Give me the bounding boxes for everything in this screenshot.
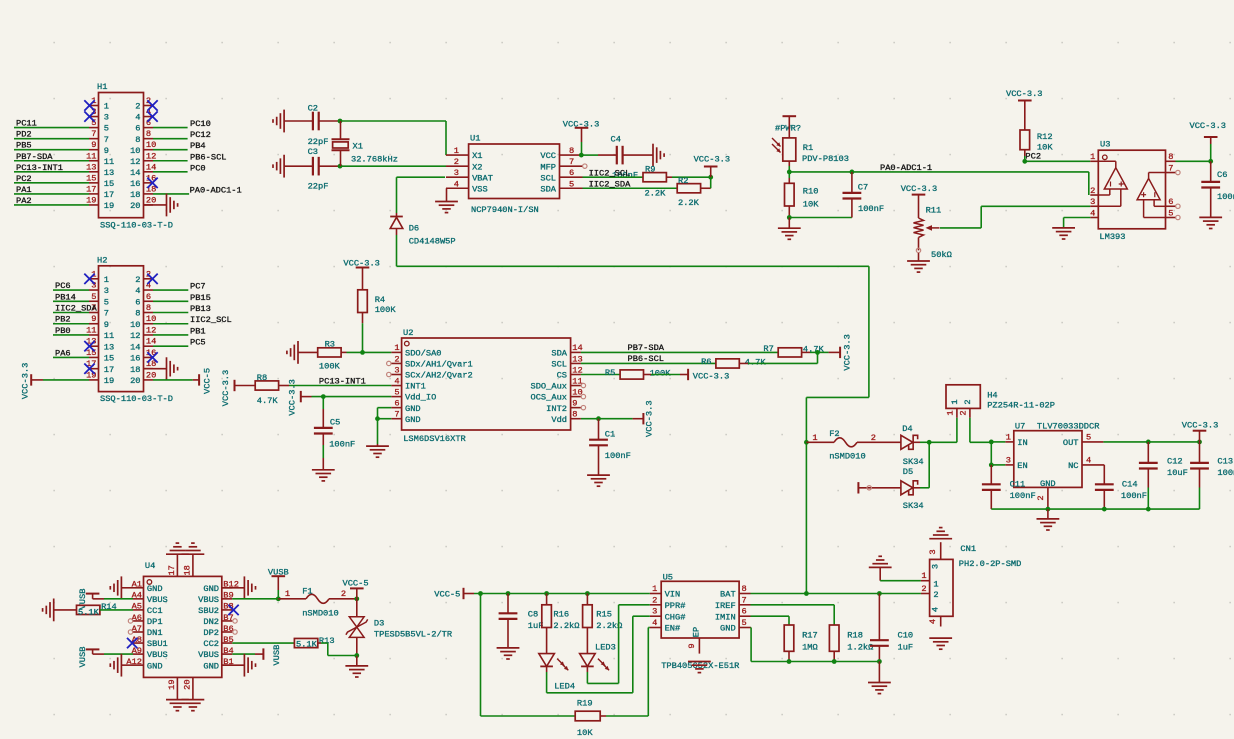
svg-text:50kΩ: 50kΩ xyxy=(931,250,952,260)
op-amp U1 body xyxy=(469,144,560,199)
junction PC2 xyxy=(1022,159,1027,164)
svg-text:1: 1 xyxy=(812,433,817,443)
svg-text:VBUS: VBUS xyxy=(147,595,168,605)
svg-text:C11: C11 xyxy=(1010,479,1026,489)
C11 labels 100nF xyxy=(1010,479,1036,501)
capacitor C11 xyxy=(982,465,1001,509)
svg-text:1uF: 1uF xyxy=(898,642,914,652)
ground at U3 pin4 xyxy=(1052,228,1075,239)
no-connect X xyxy=(84,274,94,284)
H2 pin 2 xyxy=(135,269,153,285)
svg-text:PDV-P8103: PDV-P8103 xyxy=(802,154,849,164)
svg-text:1: 1 xyxy=(454,146,459,156)
U7 pin 3 EN xyxy=(1005,455,1027,471)
svg-text:100K: 100K xyxy=(375,305,397,315)
svg-text:nSMD010: nSMD010 xyxy=(302,609,339,619)
svg-text:CC1: CC1 xyxy=(147,606,163,616)
net label PA1 xyxy=(16,185,32,195)
net label PB6-SCL xyxy=(190,152,227,162)
capacitor C3 22pF xyxy=(308,147,329,191)
wire R8 to U2 INT1 xyxy=(279,385,392,387)
wire D4 to H4 pin1 xyxy=(929,441,957,443)
svg-text:A4: A4 xyxy=(132,591,142,601)
svg-text:7: 7 xyxy=(1168,163,1173,173)
U4 pin B8 SBU2 xyxy=(198,602,234,616)
ground at CN1 pin3 xyxy=(929,528,952,539)
wire U2 SCL to R6 xyxy=(581,362,716,364)
junction PA0 node xyxy=(787,170,792,175)
svg-text:VCC-5: VCC-5 xyxy=(434,590,460,600)
wire U2 GND down xyxy=(377,419,379,446)
svg-text:PB15: PB15 xyxy=(190,293,211,303)
net label IIC2_SCL xyxy=(589,168,631,178)
svg-text:1: 1 xyxy=(104,102,109,112)
svg-text:20: 20 xyxy=(146,195,156,205)
H1 pin 2 xyxy=(135,96,153,112)
svg-text:12: 12 xyxy=(130,331,140,341)
svg-text:2.2K: 2.2K xyxy=(678,198,700,208)
svg-text:VCC-3.3: VCC-3.3 xyxy=(221,370,231,407)
svg-text:CC2: CC2 xyxy=(203,639,219,649)
svg-text:SSQ-110-03-T-D: SSQ-110-03-T-D xyxy=(100,221,173,231)
net label IIC2_SCL xyxy=(190,315,232,325)
junction GND rail xyxy=(1046,507,1051,512)
H1 pin 1 xyxy=(89,96,109,112)
svg-text:12: 12 xyxy=(130,157,140,167)
svg-text:11: 11 xyxy=(86,151,96,161)
svg-text:LSM6DSV16XTR: LSM6DSV16XTR xyxy=(403,434,466,444)
svg-text:OUT: OUT xyxy=(1063,438,1079,448)
svg-text:15: 15 xyxy=(86,173,96,183)
svg-text:VCC-3.3: VCC-3.3 xyxy=(21,363,31,400)
svg-text:PA2: PA2 xyxy=(16,196,32,206)
net label PD2 xyxy=(16,130,32,140)
svg-text:2: 2 xyxy=(921,584,926,594)
wire R9 to VCC node xyxy=(666,176,710,178)
diode D6 labels CD4148W5P xyxy=(409,224,456,247)
svg-text:C2: C2 xyxy=(308,104,318,114)
connector H1 value SSQ-110-03-T-D xyxy=(100,221,173,231)
U1 pin 3 VBAT xyxy=(446,168,493,183)
svg-text:PA6: PA6 xyxy=(55,348,71,358)
wire LED3 to PPR# xyxy=(587,605,649,684)
no-connect X xyxy=(84,111,94,121)
svg-text:18: 18 xyxy=(130,365,140,375)
svg-text:C6: C6 xyxy=(1217,170,1227,180)
svg-text:3: 3 xyxy=(928,549,938,554)
LED LED3 xyxy=(580,654,610,671)
H1 pin 8 xyxy=(135,129,153,145)
resistor R7 4.7K xyxy=(763,344,824,357)
H2 pin 15 xyxy=(86,348,114,364)
svg-text:5: 5 xyxy=(1168,208,1173,218)
svg-text:R18: R18 xyxy=(847,631,863,641)
wire R5 to VCC-3.3 xyxy=(644,374,689,376)
svg-text:SBU1: SBU1 xyxy=(147,639,168,649)
junction C14 rail xyxy=(1102,507,1107,512)
resistor R9 2.2K xyxy=(643,164,666,198)
svg-text:EN: EN xyxy=(1017,461,1027,471)
U1 pin 8 VCC xyxy=(540,146,582,161)
svg-text:H4: H4 xyxy=(987,390,997,400)
svg-text:GND: GND xyxy=(720,624,736,634)
svg-text:PC13-INT1: PC13-INT1 xyxy=(16,163,63,173)
capacitor C12 xyxy=(1139,442,1158,509)
ground at U1 VSS xyxy=(435,188,458,212)
svg-text:3: 3 xyxy=(394,365,399,375)
power symbol VCC-5 at H2 pin 20 xyxy=(193,368,213,394)
svg-text:PC0: PC0 xyxy=(190,163,206,173)
svg-text:22pF: 22pF xyxy=(308,181,329,191)
svg-text:DN1: DN1 xyxy=(147,628,163,638)
U3 pin 4 xyxy=(1090,208,1098,218)
net label PC13-INT1 xyxy=(16,163,63,173)
svg-text:100nF: 100nF xyxy=(1217,468,1234,478)
svg-text:SDO_Aux: SDO_Aux xyxy=(531,382,568,392)
crystal X1 labels 32.768kHz xyxy=(351,142,398,165)
junction U3 VCC C6 xyxy=(1208,159,1213,164)
wire VUSB to A4 xyxy=(104,598,133,600)
resistor R18 1.2k xyxy=(829,625,873,652)
svg-text:4: 4 xyxy=(1090,208,1095,218)
svg-text:SCx/AH2/Qvar2: SCx/AH2/Qvar2 xyxy=(405,371,473,381)
svg-text:PC7: PC7 xyxy=(190,282,206,292)
svg-text:100nF: 100nF xyxy=(605,451,631,461)
resistor R6 4.7K xyxy=(701,357,766,368)
svg-text:CS: CS xyxy=(557,371,567,381)
wire R14 to A5 xyxy=(100,609,133,611)
svg-text:PC11: PC11 xyxy=(16,119,37,129)
svg-text:17: 17 xyxy=(86,184,96,194)
U1 pin 2 X2 xyxy=(446,157,483,172)
svg-text:R10: R10 xyxy=(803,186,819,196)
svg-text:EP: EP xyxy=(692,627,702,637)
ground at D3 xyxy=(345,656,368,678)
svg-text:VCC-3.3: VCC-3.3 xyxy=(287,379,297,416)
U2 pin 5 Vdd_IO xyxy=(391,387,436,402)
junction U2 GND xyxy=(375,416,380,421)
svg-text:PPR#: PPR# xyxy=(665,601,686,611)
svg-text:15: 15 xyxy=(104,179,114,189)
unconnected pin marker U2 xyxy=(581,394,585,398)
U2 value LSM6DSV16XTR xyxy=(403,434,466,444)
U3 pin 7 xyxy=(1166,163,1176,173)
U4 pin 19 ground xyxy=(166,677,189,710)
fuse F2 nSMD010 xyxy=(806,438,901,447)
svg-text:9: 9 xyxy=(687,643,697,648)
svg-text:B4: B4 xyxy=(223,646,233,656)
ground at C5 xyxy=(312,470,335,481)
U4 pin B12 GND xyxy=(203,580,239,594)
U2 pin 14 SDA xyxy=(551,343,582,358)
svg-text:PB1: PB1 xyxy=(190,326,206,336)
svg-text:R8: R8 xyxy=(257,373,267,383)
svg-text:VBUS: VBUS xyxy=(198,650,219,660)
svg-text:IIC2_SCL: IIC2_SCL xyxy=(190,315,232,325)
svg-text:14: 14 xyxy=(130,342,140,352)
H1 pin 16 xyxy=(130,173,156,189)
svg-text:R9: R9 xyxy=(645,164,655,174)
svg-text:SSQ-110-03-T-D: SSQ-110-03-T-D xyxy=(100,394,173,404)
wire net PB2 xyxy=(53,323,89,325)
junction C5 top xyxy=(321,394,326,399)
svg-text:VSS: VSS xyxy=(472,184,488,194)
resistor R17 1M xyxy=(784,625,818,652)
junction R17 gnd rail xyxy=(787,659,792,664)
svg-text:IMIN: IMIN xyxy=(715,612,736,622)
power symbol VCC-3.3 at R5 xyxy=(688,369,729,382)
ground at CN1 pin1 xyxy=(869,556,892,580)
svg-text:TPESD5B5VL-2/TR: TPESD5B5VL-2/TR xyxy=(374,630,452,640)
ground at U2 xyxy=(366,446,389,457)
wire B5 CC2 to R13 xyxy=(232,642,294,644)
wire U3 pin4 to ground xyxy=(1064,218,1091,228)
wire U1 VCC to C4 xyxy=(583,154,599,156)
svg-text:4.7K: 4.7K xyxy=(745,358,767,368)
capacitor C7 xyxy=(843,172,862,218)
H1 pin 13 xyxy=(86,162,114,178)
junction BAT C10 xyxy=(877,591,882,596)
svg-text:4: 4 xyxy=(652,618,657,628)
CN1 value PH2.0-2P-SMD xyxy=(959,559,1022,569)
svg-text:2.2K: 2.2K xyxy=(645,189,667,199)
svg-text:NC: NC xyxy=(1068,461,1078,471)
svg-text:16: 16 xyxy=(130,179,140,189)
fuse F1 nSMD010 xyxy=(278,594,357,603)
svg-text:VBUS: VBUS xyxy=(198,595,219,605)
unconnected marker D5 xyxy=(867,486,871,490)
wire net PC6 xyxy=(53,289,89,291)
svg-text:PA0-ADC1-1: PA0-ADC1-1 xyxy=(880,163,932,173)
wire R17 bottom xyxy=(788,651,790,661)
svg-text:R5: R5 xyxy=(605,368,615,378)
capacitor C1 xyxy=(589,419,608,475)
svg-text:8: 8 xyxy=(135,309,140,319)
svg-text:X2: X2 xyxy=(472,162,482,172)
wire net PC13-INT1 xyxy=(14,171,89,173)
svg-text:PB5: PB5 xyxy=(16,141,32,151)
capacitor C5 xyxy=(314,397,333,470)
svg-text:PB0: PB0 xyxy=(55,326,71,336)
svg-text:F1: F1 xyxy=(302,586,312,596)
U4 pin A5 CC1 xyxy=(132,602,163,616)
U3 polarity circle xyxy=(1103,155,1108,160)
svg-text:11: 11 xyxy=(104,331,114,341)
svg-text:PB7-SDA: PB7-SDA xyxy=(628,343,665,353)
svg-text:VBUS: VBUS xyxy=(147,650,168,660)
power symbol VCC-3.3 at U2 Vdd xyxy=(633,400,655,437)
U3 pin 5 xyxy=(1166,208,1176,218)
H2 pin 14 xyxy=(130,337,156,353)
wire net PC0 xyxy=(153,171,188,173)
wire R10 to C7 bottom xyxy=(789,217,852,219)
wire battery net down xyxy=(805,442,807,593)
ground at H2 pin 18 xyxy=(144,357,178,380)
svg-text:R17: R17 xyxy=(802,631,818,641)
svg-text:C10: C10 xyxy=(898,631,914,641)
no-connect X xyxy=(147,274,157,284)
svg-text:19: 19 xyxy=(86,195,96,205)
H1 pin 15 xyxy=(86,173,114,189)
power symbol VCC-3.3 at U1 VCC xyxy=(563,120,600,156)
ground at U4 A12 xyxy=(110,654,133,677)
unconnected pin marker U3 xyxy=(1176,215,1180,219)
svg-text:5: 5 xyxy=(394,387,399,397)
H1 pin 12 xyxy=(130,151,156,167)
U3 pin 6 xyxy=(1166,197,1176,207)
H2 pin 16 xyxy=(130,348,156,364)
ground at C8 xyxy=(497,648,520,659)
svg-text:SCL: SCL xyxy=(551,360,567,370)
svg-text:INT1: INT1 xyxy=(405,382,426,392)
svg-text:VCC-3.3: VCC-3.3 xyxy=(1182,421,1219,431)
U1 pin 1 X1 xyxy=(446,146,483,161)
svg-text:PB6-SCL: PB6-SCL xyxy=(190,152,227,162)
wire PA0-ADC1-1 to U3 xyxy=(789,172,1089,195)
svg-text:10K: 10K xyxy=(803,199,819,209)
svg-text:R11: R11 xyxy=(926,205,942,215)
svg-text:16: 16 xyxy=(130,354,140,364)
svg-text:3: 3 xyxy=(1090,197,1095,207)
wire IREF to R18 xyxy=(751,605,835,625)
svg-text:C1: C1 xyxy=(605,430,615,440)
svg-text:9: 9 xyxy=(104,146,109,156)
svg-text:GND: GND xyxy=(405,404,421,414)
svg-text:19: 19 xyxy=(104,376,114,386)
wire D5 cathode xyxy=(913,487,929,489)
wire R12 to PC2 xyxy=(1024,150,1026,162)
wire net PB14 xyxy=(53,300,89,302)
svg-text:8: 8 xyxy=(742,584,747,594)
svg-text:1: 1 xyxy=(104,275,109,285)
wire D4 cathode xyxy=(913,441,929,443)
U5 pin 4 EN# xyxy=(650,618,680,634)
svg-text:PH2.0-2P-SMD: PH2.0-2P-SMD xyxy=(959,559,1022,569)
svg-text:CD4148W5P: CD4148W5P xyxy=(409,237,456,247)
U2 polarity circle xyxy=(405,341,410,346)
H2 pin 13 xyxy=(86,337,114,353)
C14 labels 100nF xyxy=(1121,479,1147,501)
junction U7 EN xyxy=(989,463,994,468)
svg-text:PC13-INT1: PC13-INT1 xyxy=(319,376,366,386)
svg-text:2: 2 xyxy=(454,157,459,167)
svg-text:GND: GND xyxy=(203,584,219,594)
svg-text:12: 12 xyxy=(146,151,156,161)
ground at U4 B1 xyxy=(222,654,256,677)
U1 pin 5 SDA xyxy=(540,179,582,194)
H2 pin 6 xyxy=(135,292,153,308)
svg-text:R1: R1 xyxy=(803,143,813,153)
H1 pin 18 xyxy=(130,184,156,200)
U2 pin 11 SDO_Aux xyxy=(531,376,583,391)
op-amp U3 body xyxy=(1098,150,1165,229)
wire R18 bottom xyxy=(833,651,835,661)
CN1 pin 3 xyxy=(928,542,941,559)
svg-text:PB2: PB2 xyxy=(55,315,71,325)
power symbol VCC-3.3 at U2 Vdd_IO xyxy=(287,379,311,416)
unconnected marker R11 xyxy=(916,248,920,252)
svg-text:6: 6 xyxy=(135,297,140,307)
wire B9 VBUS xyxy=(232,598,278,600)
svg-text:A5: A5 xyxy=(132,602,142,612)
net label PB7-SDA xyxy=(628,343,665,353)
U4 pin A7 DN1 xyxy=(132,624,163,638)
svg-text:R6: R6 xyxy=(701,357,711,367)
svg-text:X1: X1 xyxy=(353,142,363,152)
power symbol VCC-3.3 at H2 pin 19 xyxy=(21,363,44,400)
svg-text:5.1K: 5.1K xyxy=(78,607,100,617)
svg-text:6: 6 xyxy=(742,607,747,617)
power symbol VCC-3.3 at R9 R2 xyxy=(694,154,731,177)
H2 pin 11 xyxy=(86,325,114,341)
wire net PC12 xyxy=(153,138,188,140)
svg-text:R12: R12 xyxy=(1037,132,1053,142)
svg-text:VCC-3.3: VCC-3.3 xyxy=(693,371,730,381)
no-connect X xyxy=(84,100,94,110)
U1 reference xyxy=(470,134,480,144)
U4 pin B1 GND xyxy=(203,657,233,671)
svg-text:2: 2 xyxy=(135,275,140,285)
svg-text:1MΩ: 1MΩ xyxy=(802,642,818,652)
svg-text:13: 13 xyxy=(104,168,114,178)
svg-text:C13: C13 xyxy=(1217,456,1233,466)
svg-text:7: 7 xyxy=(394,410,399,420)
svg-text:3: 3 xyxy=(104,286,109,296)
battery connector CN1 body xyxy=(930,559,953,616)
svg-text:4: 4 xyxy=(454,179,459,189)
wire net PB0 xyxy=(53,334,89,336)
C8 labels 1uF xyxy=(528,610,544,632)
wire U7 IN EN xyxy=(991,442,1005,465)
svg-text:PB13: PB13 xyxy=(190,304,211,314)
svg-text:1: 1 xyxy=(950,399,960,404)
svg-text:LED4: LED4 xyxy=(554,682,575,692)
wire R1 to R10 xyxy=(788,161,790,184)
U4 pin B5 CC2 xyxy=(203,635,233,649)
svg-text:3: 3 xyxy=(454,168,459,178)
svg-text:3: 3 xyxy=(930,564,940,569)
svg-text:11: 11 xyxy=(86,325,96,335)
svg-text:R2: R2 xyxy=(678,176,688,186)
unconnected pin marker U1 MFP xyxy=(583,164,587,168)
U4 pin A9 VBUS xyxy=(132,646,168,660)
svg-text:19: 19 xyxy=(104,201,114,211)
svg-text:1: 1 xyxy=(933,580,938,590)
svg-text:18: 18 xyxy=(183,565,193,575)
unconnected pin marker U2 xyxy=(581,383,585,387)
junction X1 bottom node xyxy=(338,164,343,169)
H4 pin 1 xyxy=(946,408,957,442)
op-amp U3 comparator A xyxy=(1098,161,1127,206)
svg-text:3: 3 xyxy=(1006,455,1011,465)
svg-text:CN1: CN1 xyxy=(960,544,976,554)
diode D6 xyxy=(390,213,403,235)
no-connect X xyxy=(84,341,94,351)
net label PA0-ADC1-1 xyxy=(880,163,932,173)
H4 pin 2 xyxy=(959,408,970,442)
U3 pin 2 xyxy=(1090,186,1098,196)
svg-text:PD2: PD2 xyxy=(16,130,32,140)
connector H2 value SSQ-110-03-T-D xyxy=(100,394,173,404)
C12 labels 10uF xyxy=(1167,456,1188,478)
wire VCC-5 rail xyxy=(474,593,650,595)
svg-text:17: 17 xyxy=(167,565,177,575)
H1 pin 10 xyxy=(130,140,156,156)
svg-text:PC2: PC2 xyxy=(16,174,32,184)
ground at C2 left xyxy=(273,110,313,133)
H2 pin 10 xyxy=(130,314,156,330)
net label IIC2_SDA xyxy=(55,304,97,314)
